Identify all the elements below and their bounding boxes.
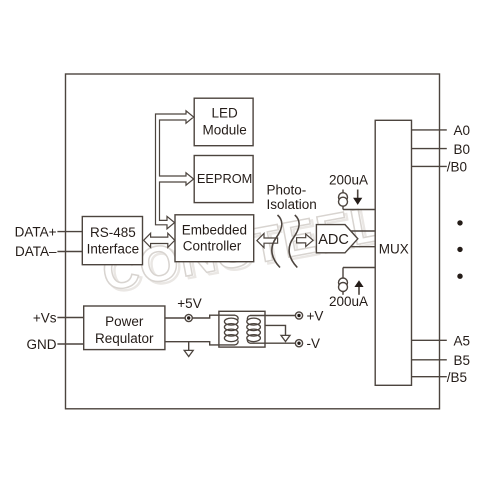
wire B5 <box>412 359 447 361</box>
svg-text:-V: -V <box>307 336 321 351</box>
wire B0 <box>412 148 447 150</box>
current source bottom (200uA) <box>339 268 376 295</box>
svg-text:Isolation: Isolation <box>267 197 317 212</box>
transformer secondary coil <box>247 316 261 344</box>
svg-text:LED: LED <box>211 105 238 120</box>
ADC pentagon <box>316 225 357 253</box>
source circle 2 <box>339 283 348 292</box>
svg-text:Controller: Controller <box>183 239 242 254</box>
wire DATA- <box>57 251 82 253</box>
wire to MUX <box>343 209 375 211</box>
+5V output wire with jog <box>165 315 235 318</box>
wire secondary to +V <box>250 315 295 317</box>
top stub wire <box>342 268 344 279</box>
svg-text:200uA: 200uA <box>329 173 368 188</box>
border frame <box>66 74 440 409</box>
source circle 1 <box>339 193 348 202</box>
svg-text:200uA: 200uA <box>329 294 368 309</box>
transformer primary coil <box>224 315 238 345</box>
box transformer <box>219 311 265 347</box>
wire GND <box>57 343 83 345</box>
source circle 2 <box>339 197 348 206</box>
svg-text:/B5: /B5 <box>447 370 467 385</box>
svg-text:B0: B0 <box>454 142 471 157</box>
ground branch <box>188 342 190 350</box>
svg-text:+Vs: +Vs <box>33 310 57 325</box>
terminal -V <box>295 340 302 347</box>
wire DATA+ <box>57 231 82 233</box>
secondary center tap to ground <box>265 325 286 335</box>
svg-text:+5V: +5V <box>177 296 201 311</box>
down arrow <box>357 190 359 199</box>
wire ADC to MUX lower <box>351 246 376 248</box>
wire /B0 <box>412 165 447 167</box>
up arrow <box>358 287 360 295</box>
wire secondary to -V <box>250 342 295 344</box>
svg-text:GND: GND <box>27 337 57 352</box>
svg-text:Interface: Interface <box>87 242 140 257</box>
isolation squiggle 1 <box>272 215 282 268</box>
svg-text:DATA–: DATA– <box>15 244 57 259</box>
hollow arrow isolation to ADC (right) <box>297 234 314 247</box>
box Power Regulator <box>84 306 165 350</box>
node +5V circle <box>185 314 192 321</box>
current source top (200uA) <box>339 190 376 210</box>
svg-text:Power: Power <box>105 314 144 329</box>
svg-text:RS-485: RS-485 <box>90 225 136 240</box>
svg-text:DATA+: DATA+ <box>15 224 57 239</box>
svg-text:+V: +V <box>307 308 324 323</box>
ground triangle <box>184 350 193 356</box>
top stub wire <box>342 190 344 193</box>
svg-text:MUX: MUX <box>379 241 409 256</box>
isolation squiggle 2 <box>289 215 299 268</box>
ellipsis dot 3 <box>457 274 462 279</box>
hollow double arrow RS-485 to controller <box>144 233 175 247</box>
terminal +V <box>295 312 302 319</box>
svg-text:A5: A5 <box>454 334 471 349</box>
svg-text:A0: A0 <box>454 123 471 138</box>
power bottom wire with jog <box>165 342 235 345</box>
svg-text:EEPROM: EEPROM <box>197 171 252 186</box>
source circle 1 <box>339 278 348 287</box>
box EEPROM <box>194 156 253 203</box>
ellipsis dot 2 <box>457 247 462 252</box>
box Embedded Controller <box>175 215 254 262</box>
wire A0 <box>412 129 447 131</box>
svg-text:B5: B5 <box>454 353 471 368</box>
svg-text:Photo-: Photo- <box>267 183 307 198</box>
hollow arrow isolation to controller (left) <box>257 234 278 248</box>
wire /B5 <box>412 376 447 378</box>
svg-text:Embedded: Embedded <box>182 223 247 238</box>
svg-text:/B0: /B0 <box>447 160 467 175</box>
bottom stub wire <box>342 292 344 295</box>
box MUX <box>375 120 411 385</box>
svg-text:Module: Module <box>202 123 246 138</box>
box RS-485 Interface <box>82 217 142 265</box>
wire ADC to MUX upper <box>351 230 376 232</box>
watermark CONSTEEL <box>98 194 391 304</box>
ground triangle 2 <box>281 335 290 341</box>
svg-text:Requlator: Requlator <box>95 331 154 346</box>
hollow arrow channel from controller to LED Module and EEPROM <box>156 111 194 229</box>
wire A5 <box>412 339 447 341</box>
wire +Vs <box>57 317 83 319</box>
ellipsis dot 1 <box>457 220 462 225</box>
wire to MUX <box>343 267 375 269</box>
box LED Module <box>194 98 253 146</box>
bottom stub wire <box>342 206 344 209</box>
svg-text:ADC: ADC <box>318 232 349 248</box>
